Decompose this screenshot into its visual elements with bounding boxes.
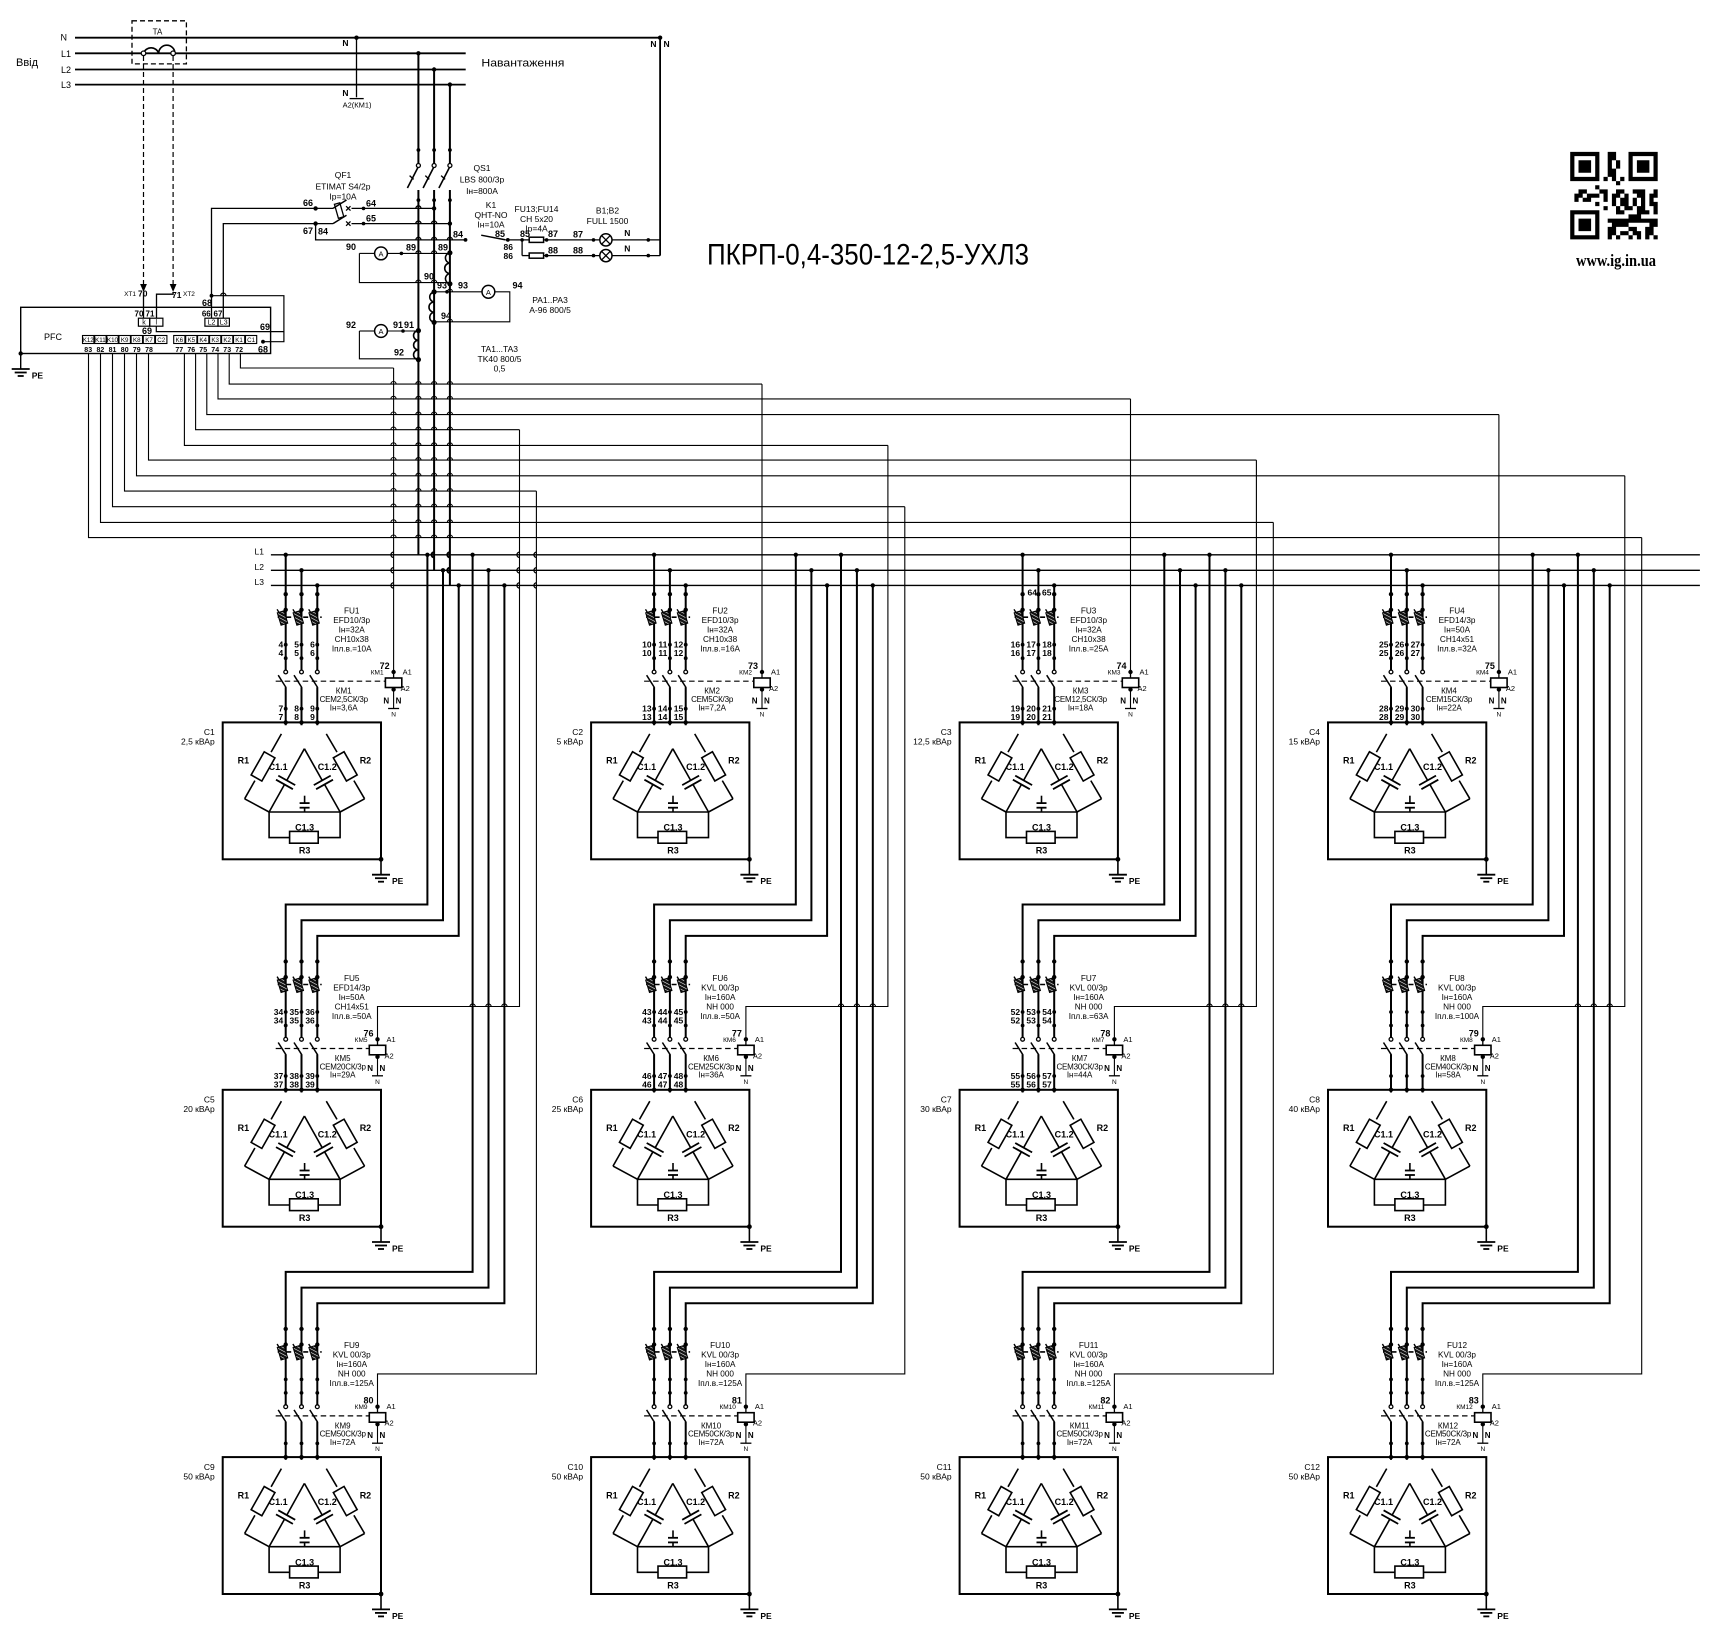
capacitor unit C6 box (591, 1090, 749, 1227)
capacitor C1.1 (1024, 749, 1042, 781)
capacitor C1.2 (673, 749, 691, 781)
svg-text:19: 19 (1011, 712, 1021, 722)
contactor KM1 coil (391, 670, 395, 674)
svg-text:R2: R2 (360, 1490, 372, 1500)
svg-text:34: 34 (274, 1016, 284, 1026)
svg-text:30 кВАр: 30 кВАр (920, 1104, 952, 1114)
svg-text:C1.2: C1.2 (686, 1130, 705, 1140)
wire 69 PFC l sense (156, 326, 284, 331)
capacitor C1.3 (638, 1546, 709, 1548)
wire 71 XT2 to PFC l (157, 292, 174, 318)
svg-text:PE: PE (1497, 1611, 1509, 1621)
svg-text:6: 6 (310, 648, 315, 658)
contactor KM12 coil (1481, 1405, 1485, 1409)
svg-text:C10: C10 (568, 1462, 584, 1472)
svg-text:15 кВАр: 15 кВАр (1289, 737, 1321, 747)
resistor R3 (1006, 1179, 1027, 1205)
contactor KM10 contacts (646, 1405, 656, 1422)
svg-text:КМ1: КМ1 (371, 670, 384, 677)
fuse FU1 pole 3 (309, 609, 320, 625)
svg-text:R3: R3 (1036, 846, 1048, 856)
capacitor C1.1 (1392, 749, 1410, 781)
svg-text:Iр=4A: Iр=4A (525, 224, 548, 234)
capacitor unit C9 box (223, 1457, 381, 1594)
svg-text:C11: C11 (937, 1462, 952, 1472)
svg-text:FU1: FU1 (344, 607, 360, 616)
resistor R1 (1376, 1469, 1386, 1487)
svg-text:A2: A2 (401, 684, 410, 693)
fuse FU14 (522, 255, 529, 257)
svg-text:Iпл.в.=25A: Iпл.в.=25A (1069, 645, 1109, 654)
svg-text:38: 38 (290, 1080, 300, 1090)
svg-text:Iпл.в.=63A: Iпл.в.=63A (1069, 1012, 1109, 1021)
fuse FU7 pole 1 (1014, 977, 1025, 993)
svg-text:L3: L3 (61, 80, 71, 90)
svg-text:TA: TA (153, 28, 163, 37)
svg-text:L2: L2 (61, 65, 71, 75)
svg-text:TK40 800/5: TK40 800/5 (478, 354, 522, 364)
capacitor C1.2 (1041, 1116, 1059, 1148)
svg-text:4: 4 (278, 648, 283, 658)
svg-text:FULL 1500: FULL 1500 (587, 216, 629, 226)
svg-text:www.ig.in.ua: www.ig.in.ua (1576, 251, 1656, 270)
resistor R2 (695, 1469, 706, 1487)
wire phase 2 to FU1 (301, 570, 303, 725)
contactor KM6 contacts (646, 1038, 656, 1055)
fuse FU8 pole 2 (1398, 977, 1409, 993)
svg-text:FU6: FU6 (712, 974, 728, 983)
svg-text:12: 12 (674, 648, 684, 658)
wire feeder phase 3 (317, 585, 504, 1460)
svg-text:20: 20 (1026, 712, 1036, 722)
current transformer TA2 winding (429, 292, 434, 322)
capacitor C1.1 (1024, 1116, 1042, 1148)
ammeter PA2 (482, 285, 495, 298)
svg-text:46: 46 (642, 1080, 652, 1090)
svg-text:Iн=3,6A: Iн=3,6A (330, 703, 358, 712)
wire 77 control (184, 354, 888, 446)
svg-text:XT2: XT2 (183, 291, 195, 298)
svg-text:PE: PE (760, 876, 772, 886)
svg-text:A1: A1 (755, 1402, 764, 1411)
wire 83 control drop (1483, 538, 1642, 1407)
resistor R2 (326, 1469, 337, 1487)
capacitor C1.3 (1006, 1178, 1077, 1180)
svg-text:A1: A1 (387, 1402, 396, 1411)
svg-text:14: 14 (658, 712, 668, 722)
bus L3 (271, 584, 1700, 586)
svg-text:Iн=22A: Iн=22A (1436, 703, 1462, 712)
svg-text:Iпл.в.=125A: Iпл.в.=125A (330, 1379, 375, 1388)
svg-text:55: 55 (1011, 1080, 1021, 1090)
resistor R1 (1008, 1469, 1018, 1487)
svg-text:A2: A2 (1138, 684, 1147, 693)
current transformer TA3 winding (414, 331, 419, 360)
ground PE at PFC (19, 351, 23, 355)
svg-text:73: 73 (223, 347, 231, 354)
svg-text:Iн=29A: Iн=29A (330, 1071, 356, 1080)
svg-text:R1: R1 (606, 756, 618, 766)
svg-text:FU9: FU9 (344, 1341, 360, 1350)
svg-text:Iпл.в.=125A: Iпл.в.=125A (1066, 1379, 1111, 1388)
wire feeder phase 2 (670, 570, 857, 1460)
svg-text:N: N (61, 33, 68, 43)
svg-text:5 кВАр: 5 кВАр (557, 737, 584, 747)
resistor R1 (640, 1469, 650, 1487)
terminal PFC K6 (174, 336, 185, 344)
svg-text:75: 75 (199, 347, 207, 354)
svg-text:64: 64 (1028, 587, 1038, 597)
wire phase 1 to FU4 (1390, 555, 1392, 725)
svg-text:N: N (380, 1064, 386, 1073)
wire 80 control (125, 354, 537, 492)
fuse FU12 pole 2 (1398, 1344, 1409, 1360)
svg-text:КМ2: КМ2 (739, 670, 752, 677)
svg-text:84: 84 (453, 229, 463, 239)
svg-text:C1.2: C1.2 (686, 1497, 705, 1507)
capacitor C1.2 (1410, 1116, 1428, 1148)
svg-text:13: 13 (642, 712, 652, 722)
resistor R1 (1376, 734, 1386, 752)
resistor R3 (269, 1547, 290, 1573)
svg-text:NH 000: NH 000 (1075, 1002, 1103, 1011)
fuse group FU4 (1383, 616, 1427, 618)
svg-text:N: N (650, 39, 656, 49)
resistor R3 (1006, 1547, 1027, 1573)
svg-text:R3: R3 (667, 1213, 679, 1223)
svg-text:КМ4: КМ4 (1476, 670, 1489, 677)
node N input line (75, 37, 660, 39)
capacitor C1.3 (1006, 1546, 1077, 1548)
capacitor C1.2 (304, 1483, 322, 1515)
svg-text:N: N (375, 1079, 380, 1086)
svg-text:LBS 800/3р: LBS 800/3р (460, 175, 505, 185)
svg-text:Iн=72A: Iн=72A (330, 1438, 356, 1447)
svg-text:Ввід: Ввід (16, 57, 39, 69)
controller PFC box (21, 307, 271, 353)
fuse FU12 pole 3 (1414, 1344, 1425, 1360)
svg-text:29: 29 (1395, 712, 1405, 722)
wire 64 (352, 207, 435, 209)
svg-text:A2: A2 (1121, 1419, 1130, 1428)
fuse FU4 pole 2 (1398, 609, 1409, 625)
svg-text:PE: PE (392, 1611, 404, 1621)
wire feeder phase 3 (1054, 585, 1195, 1092)
terminal PFC K10 (107, 336, 118, 344)
svg-text:CH14x51: CH14x51 (335, 1002, 370, 1011)
svg-text:K12: K12 (83, 337, 95, 344)
terminal PFC K7 (143, 336, 154, 344)
capacitor unit C3 box (960, 722, 1118, 859)
svg-text:Iн=72A: Iн=72A (698, 1438, 724, 1447)
svg-text:Iпл.в.=16A: Iпл.в.=16A (700, 645, 740, 654)
resistor R3 (269, 1179, 290, 1205)
svg-text:NH 000: NH 000 (1443, 1370, 1471, 1379)
wire feeder phase 2 (302, 570, 489, 1460)
wire 73 control (229, 354, 762, 385)
wire feeder phase 1 (1391, 555, 1578, 1460)
ground PE of C10 (747, 1592, 752, 1597)
capacitor C1.1 (1024, 1483, 1042, 1515)
fuse FU5 pole 2 (293, 977, 304, 993)
svg-text:N: N (1480, 1446, 1485, 1453)
svg-text:C3: C3 (941, 727, 952, 737)
svg-text:78: 78 (145, 347, 153, 354)
svg-text:L1: L1 (255, 546, 265, 556)
svg-text:Iпл.в.=32A: Iпл.в.=32A (1437, 645, 1477, 654)
svg-text:21: 21 (1042, 712, 1052, 722)
svg-text:N: N (760, 712, 765, 719)
svg-text:83: 83 (84, 347, 92, 354)
svg-text:КМ11: КМ11 (1088, 1404, 1104, 1411)
svg-text:FU5: FU5 (344, 974, 360, 983)
svg-text:N: N (380, 1431, 386, 1440)
fuse FU11 pole 1 (1014, 1344, 1025, 1360)
wire 79 control (137, 354, 1625, 476)
ground PE of C1 (379, 857, 384, 862)
ammeter PA1 (375, 247, 388, 260)
svg-text:A1: A1 (1123, 1402, 1132, 1411)
svg-text:89: 89 (438, 243, 448, 253)
svg-text:R1: R1 (606, 1123, 618, 1133)
fuse FU9 pole 2 (293, 1344, 304, 1360)
svg-text:A2(КМ1): A2(КМ1) (343, 101, 372, 110)
contactor KM11 contacts (1015, 1405, 1025, 1422)
fuse group FU7 (1015, 984, 1059, 986)
svg-text:50 кВАр: 50 кВАр (183, 1471, 215, 1481)
capacitor C1.2 (304, 749, 322, 781)
svg-text:27: 27 (1411, 648, 1421, 658)
svg-text:KVL 00/3р: KVL 00/3р (1070, 983, 1108, 992)
fuse FU3 pole 2 (1030, 609, 1041, 625)
svg-text:C2: C2 (572, 727, 583, 737)
capacitor C1.1 (287, 1483, 305, 1515)
svg-text:КМ3: КМ3 (1108, 670, 1121, 677)
capacitor unit C12 box (1328, 1457, 1486, 1594)
svg-text:Iн=160A: Iн=160A (336, 1360, 367, 1369)
svg-text:88: 88 (548, 245, 558, 255)
svg-text:KVL 00/3р: KVL 00/3р (1070, 1351, 1108, 1360)
node N stub to A2(KM1) (354, 36, 358, 40)
wire 76 control (196, 354, 520, 430)
wire phase 3 to FU4 (1422, 585, 1424, 725)
wire phase 1 to FU2 (653, 555, 655, 725)
capacitor C1.3 (269, 1546, 340, 1548)
svg-text:FU10: FU10 (710, 1341, 730, 1350)
svg-text:64: 64 (366, 199, 376, 209)
svg-text:N: N (1497, 712, 1502, 719)
svg-text:30: 30 (1411, 712, 1421, 722)
svg-text:KVL 00/3р: KVL 00/3р (1438, 1351, 1476, 1360)
svg-text:K5: K5 (188, 337, 196, 344)
fuse FU4 pole 1 (1382, 609, 1393, 625)
svg-text:КМ7: КМ7 (1092, 1037, 1105, 1044)
svg-text:FU8: FU8 (1449, 974, 1465, 983)
resistor R2 (1432, 1469, 1443, 1487)
svg-text:86: 86 (504, 251, 514, 261)
ground PE of C9 (379, 1592, 384, 1597)
wire 72 control drop (393, 368, 395, 672)
svg-text:N: N (664, 39, 670, 49)
resistor R1 (640, 734, 650, 752)
svg-text:PE: PE (392, 876, 404, 886)
fuse FU2 pole 3 (677, 609, 688, 625)
fuse FU3 pole 3 (1046, 609, 1057, 625)
svg-text:A2: A2 (1490, 1419, 1499, 1428)
capacitor C1.3 (1006, 811, 1077, 813)
wire 78 control drop (1114, 460, 1256, 1039)
svg-text:93: 93 (458, 281, 468, 291)
resistor R2 (1432, 734, 1443, 752)
switch K1 (481, 235, 506, 240)
svg-text:77: 77 (175, 347, 183, 354)
resistor R1 (271, 734, 281, 752)
svg-text:C1.2: C1.2 (318, 1497, 337, 1507)
svg-text:N: N (1116, 1431, 1122, 1440)
wire 81 control drop (746, 507, 905, 1407)
svg-text:Iр=10A: Iр=10A (329, 192, 357, 202)
svg-text:R3: R3 (1404, 846, 1416, 856)
svg-text:N: N (764, 697, 770, 706)
svg-text:KVL 00/3р: KVL 00/3р (701, 1351, 739, 1360)
svg-text:A2: A2 (1121, 1051, 1130, 1060)
svg-text:N: N (1120, 697, 1126, 706)
svg-text:52: 52 (1011, 1016, 1021, 1026)
wire feeder phase 3 (1423, 585, 1610, 1460)
fuse group FU3 (1015, 616, 1059, 618)
fuse group FU5 (278, 984, 322, 986)
svg-text:C1.2: C1.2 (1055, 762, 1074, 772)
fuse FU6 pole 2 (661, 977, 672, 993)
contactor KM4 contacts (1383, 670, 1393, 687)
svg-text:PE: PE (1129, 1611, 1141, 1621)
svg-text:N: N (1133, 697, 1139, 706)
ground PE of C4 (1484, 857, 1489, 862)
breaker QF1 pole 1 (316, 207, 333, 209)
resistor R3 (1374, 1547, 1395, 1573)
fuse group FU1 (278, 616, 322, 618)
wire feeder phase 3 (686, 585, 873, 1460)
svg-text:R3: R3 (299, 1213, 311, 1223)
svg-text:57: 57 (1042, 1080, 1052, 1090)
svg-text:A1: A1 (755, 1035, 764, 1044)
terminal k (138, 318, 149, 326)
svg-text:65: 65 (366, 214, 376, 224)
contactor KM6 coil (744, 1037, 748, 1041)
svg-text:KVL 00/3р: KVL 00/3р (701, 983, 739, 992)
resistor R2 (1063, 734, 1074, 752)
svg-text:R2: R2 (1097, 1123, 1109, 1133)
wire feeder phase 2 (1038, 570, 1180, 1092)
svg-text:7: 7 (278, 712, 283, 722)
svg-text:КМ5: КМ5 (355, 1037, 368, 1044)
svg-text:20 кВАр: 20 кВАр (183, 1104, 215, 1114)
svg-text:EFD14/3р: EFD14/3р (1439, 616, 1476, 625)
svg-text:R1: R1 (975, 756, 987, 766)
svg-text:N: N (1480, 1079, 1485, 1086)
svg-text:C12: C12 (1304, 1462, 1320, 1472)
capacitor C1.1 (655, 749, 673, 781)
wire feeder phase 1 (286, 555, 428, 1093)
switch QS1 pole 3 (448, 164, 452, 168)
svg-text:56: 56 (1026, 1080, 1036, 1090)
svg-text:79: 79 (133, 347, 141, 354)
wire feeder phase 1 (654, 555, 841, 1460)
svg-text:Iн=160A: Iн=160A (705, 1360, 736, 1369)
svg-text:ETIMAT S4/2р: ETIMAT S4/2р (316, 182, 371, 192)
svg-text:C8: C8 (1309, 1095, 1320, 1105)
svg-text:N: N (624, 244, 630, 254)
svg-text:26: 26 (1395, 648, 1405, 658)
svg-text:9: 9 (310, 712, 315, 722)
resistor R3 (269, 812, 290, 838)
capacitor C1.3 (269, 811, 340, 813)
svg-text:89: 89 (406, 243, 416, 253)
svg-text:40 кВАр: 40 кВАр (1289, 1104, 1321, 1114)
capacitor C1.2 (1041, 749, 1059, 781)
svg-text:84: 84 (318, 227, 328, 237)
svg-text:R1: R1 (1343, 1490, 1355, 1500)
svg-text:N: N (1112, 1079, 1117, 1086)
svg-text:Iпл.в.=125A: Iпл.в.=125A (698, 1379, 743, 1388)
svg-text:A1: A1 (1508, 668, 1517, 677)
svg-text:N: N (1104, 1064, 1110, 1073)
svg-text:R3: R3 (667, 846, 679, 856)
svg-text:K1: K1 (486, 200, 497, 210)
wire 77 control drop (746, 445, 888, 1039)
svg-text:Iн=10A: Iн=10A (477, 220, 504, 230)
svg-text:2,5 кВАр: 2,5 кВАр (181, 737, 215, 747)
svg-text:КМ8: КМ8 (1460, 1037, 1473, 1044)
contactor KM1 contacts (278, 670, 288, 687)
capacitor C1.3 (1374, 1546, 1445, 1548)
svg-text:A2: A2 (1490, 1051, 1499, 1060)
svg-text:NH 000: NH 000 (706, 1370, 734, 1379)
svg-text:N: N (1485, 1064, 1491, 1073)
svg-text:Iн=160A: Iн=160A (1442, 1360, 1473, 1369)
svg-text:КМ10: КМ10 (719, 1404, 736, 1411)
svg-text:CH10x38: CH10x38 (703, 635, 738, 644)
svg-text:КМ12: КМ12 (1456, 1404, 1473, 1411)
wire phase 3 to FU3 (1053, 585, 1055, 725)
wire phase 3 to FU1 (316, 585, 318, 725)
svg-text:A2: A2 (385, 1051, 394, 1060)
svg-text:K1: K1 (235, 337, 243, 344)
svg-text:K9: K9 (121, 337, 129, 344)
terminal PFC C2 (156, 336, 167, 344)
fuse group FU11 (1015, 1351, 1059, 1353)
svg-text:N: N (1473, 1431, 1479, 1440)
svg-text:Iн=44A: Iн=44A (1067, 1071, 1093, 1080)
svg-text:N: N (391, 712, 396, 719)
resistor R1 (271, 1469, 281, 1487)
contactor KM3 contacts (1015, 670, 1025, 687)
svg-text:N: N (375, 1446, 380, 1453)
current transformer TA (132, 21, 186, 64)
svg-text:N: N (1501, 697, 1507, 706)
wire feeder phase 3 (1423, 585, 1564, 1092)
breaker QF1 link bar (334, 203, 343, 218)
svg-text:PE: PE (1129, 1244, 1141, 1254)
fuse FU3 pole 1 (1014, 609, 1025, 625)
svg-text:A1: A1 (1123, 1035, 1132, 1044)
wire feeder phase 3 (317, 585, 458, 1092)
svg-text:37: 37 (274, 1080, 284, 1090)
contactor KM2 contacts (646, 670, 656, 687)
svg-text:KVL 00/3р: KVL 00/3р (1438, 983, 1476, 992)
svg-text:N: N (396, 697, 402, 706)
svg-text:PE: PE (392, 1244, 404, 1254)
